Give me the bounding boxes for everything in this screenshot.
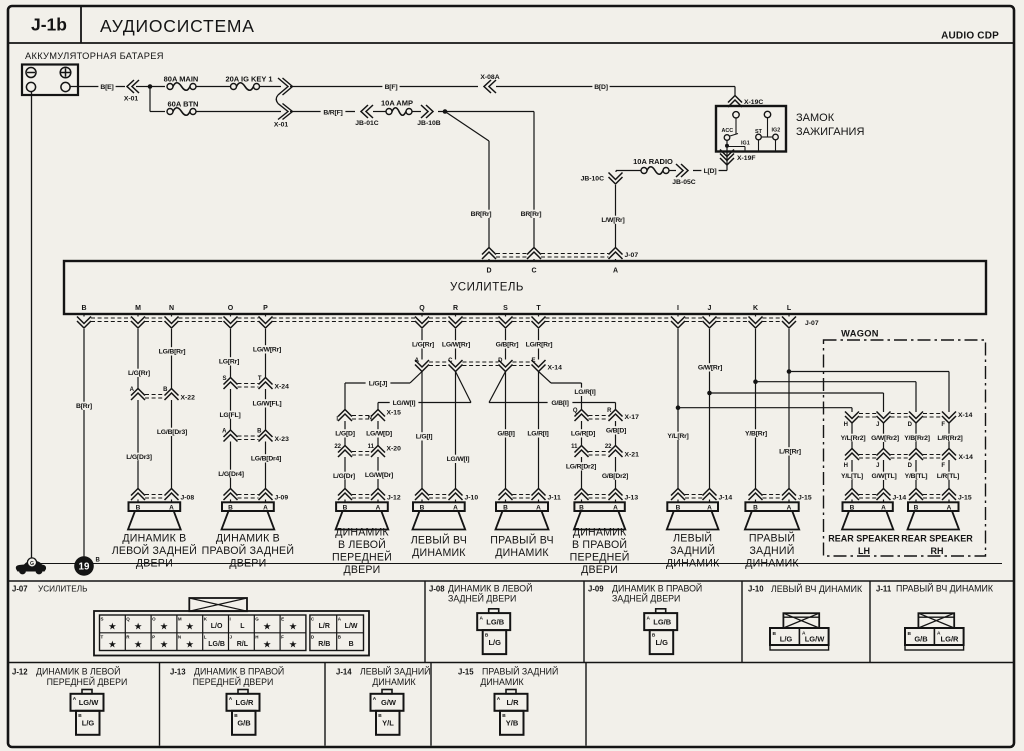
wire L[D]	[726, 166, 728, 171]
svg-text:ЛЕВОЙ ЗАДНЕЙ: ЛЕВОЙ ЗАДНЕЙ	[112, 544, 197, 557]
wire O LG[Rr]	[230, 329, 232, 378]
svg-text:Y/L[Rr2]: Y/L[Rr2]	[841, 435, 866, 442]
wire G/B[D]	[615, 421, 617, 446]
svg-text:A: A	[373, 696, 377, 702]
svg-text:J-12: J-12	[387, 495, 401, 502]
svg-text:L/G[Rr]: L/G[Rr]	[412, 342, 434, 349]
ignition IG2 contact	[773, 134, 779, 140]
svg-text:M: M	[178, 617, 182, 622]
wagon dash-dot box	[824, 340, 986, 556]
svg-text:60A BTN: 60A BTN	[168, 100, 199, 109]
title row separator line	[8, 42, 1014, 44]
connector J-13 row	[575, 489, 589, 496]
svg-text:T: T	[101, 634, 104, 639]
svg-text:★: ★	[186, 640, 195, 651]
svg-text:N: N	[169, 305, 174, 312]
svg-text:LG/W[D]: LG/W[D]	[366, 431, 392, 438]
wire to JB-10B	[412, 111, 421, 113]
svg-text:E: E	[281, 617, 284, 622]
connector X-14 wagon row 2	[845, 449, 859, 456]
wire Q L/G[I]	[421, 372, 423, 489]
svg-text:R: R	[607, 408, 612, 414]
svg-text:J-14: J-14	[893, 495, 907, 502]
svg-text:G/W[TL]: G/W[TL]	[871, 473, 896, 480]
wire B[D]	[496, 86, 735, 88]
svg-text:D: D	[908, 463, 913, 469]
wire J G/W[Rr]	[709, 329, 711, 489]
wire L/G[D]	[344, 421, 346, 446]
wires wagon Rr2	[851, 423, 853, 449]
node J branch	[707, 391, 712, 396]
svg-text:LG/W[Dr]: LG/W[Dr]	[365, 472, 393, 479]
svg-text:УСИЛИТЕЛЬ: УСИЛИТЕЛЬ	[38, 585, 87, 594]
svg-text:ДИНАМИК В ПРАВОЙ: ДИНАМИК В ПРАВОЙ	[194, 666, 284, 677]
svg-text:J: J	[876, 463, 879, 469]
ground car icon	[16, 561, 46, 572]
svg-text:J-1b: J-1b	[31, 15, 67, 35]
svg-text:X-17: X-17	[625, 414, 640, 421]
svg-text:I: I	[230, 617, 231, 622]
connector X-14 main	[415, 365, 429, 372]
svg-text:J-09: J-09	[275, 495, 289, 502]
svg-text:X-15: X-15	[387, 410, 402, 417]
svg-text:X-21: X-21	[625, 452, 640, 459]
svg-text:IG2: IG2	[772, 128, 781, 134]
connector J-08 pinout	[489, 609, 499, 613]
fuse 10A RADIO	[641, 168, 647, 174]
svg-text:LG/W: LG/W	[79, 698, 99, 707]
node amp feed split	[438, 111, 534, 113]
connector X-01 harness crossing	[278, 78, 293, 95]
svg-text:ДИНАМИК В: ДИНАМИК В	[122, 533, 186, 545]
ground bus line	[30, 563, 1002, 565]
battery BAT	[22, 65, 78, 96]
svg-text:A: A	[613, 268, 618, 275]
svg-text:G/B[I]: G/B[I]	[551, 400, 568, 407]
svg-text:ПРАВЫЙ: ПРАВЫЙ	[749, 532, 795, 545]
svg-text:ЗАЖИГАНИЯ: ЗАЖИГАНИЯ	[796, 126, 864, 138]
svg-text:D: D	[486, 268, 491, 275]
svg-text:10A AMP: 10A AMP	[381, 99, 413, 108]
svg-text:IG1: IG1	[741, 141, 750, 147]
speaker rear RH	[908, 502, 959, 511]
svg-text:R/B: R/B	[318, 641, 330, 648]
svg-text:J-10: J-10	[465, 495, 479, 502]
svg-text:P: P	[263, 305, 268, 312]
svg-text:ДИНАМИК: ДИНАМИК	[335, 527, 389, 539]
svg-text:ДИНАМИК: ДИНАМИК	[480, 677, 524, 687]
svg-text:G/W[Rr2]: G/W[Rr2]	[871, 435, 899, 442]
svg-text:B: B	[579, 504, 584, 511]
wire K to wagon	[756, 381, 917, 383]
svg-text:Y/B[TL]: Y/B[TL]	[905, 473, 928, 480]
svg-text:ДИНАМИК В ПРАВОЙ: ДИНАМИК В ПРАВОЙ	[612, 583, 702, 594]
svg-text:Y/L: Y/L	[382, 719, 394, 728]
table row divider	[8, 662, 1014, 664]
svg-text:LG/R[I]: LG/R[I]	[527, 431, 548, 438]
svg-text:В ПРАВОЙ: В ПРАВОЙ	[572, 538, 627, 551]
svg-text:B[F]: B[F]	[385, 84, 398, 91]
svg-text:H: H	[844, 463, 848, 469]
svg-text:J-13: J-13	[625, 495, 639, 502]
svg-text:J-14: J-14	[719, 495, 733, 502]
svg-text:10A RADIO: 10A RADIO	[633, 157, 673, 166]
svg-text:★: ★	[134, 622, 143, 633]
svg-text:ЗАДНЕЙ ДВЕРИ: ЗАДНЕЙ ДВЕРИ	[612, 593, 680, 604]
svg-text:T: T	[258, 376, 262, 382]
speaker J-12 left front door	[336, 502, 388, 511]
wire P LG/B[Dr4]	[265, 442, 267, 489]
svg-text:B: B	[908, 631, 912, 637]
connector J-12 row	[338, 489, 352, 496]
ignition switch box	[716, 106, 786, 152]
svg-text:★: ★	[263, 640, 272, 651]
speaker rear LH	[843, 502, 893, 511]
ground ref circle 19	[74, 556, 94, 576]
svg-text:X-01: X-01	[274, 122, 289, 129]
svg-text:E: E	[531, 358, 535, 364]
wire B[Rr]	[83, 329, 85, 557]
connector JB-10B	[426, 105, 433, 118]
svg-text:★: ★	[108, 622, 117, 633]
wire R LG/W[I] down	[455, 372, 457, 489]
speaker J-10 left tweeter	[413, 502, 465, 511]
svg-text:C: C	[448, 358, 453, 364]
wire to fuse 10A RADIO	[669, 170, 676, 172]
svg-text:Y/B[Rr2]: Y/B[Rr2]	[904, 435, 930, 442]
svg-text:H: H	[255, 634, 258, 639]
svg-text:ЛЕВЫЙ ВЧ: ЛЕВЫЙ ВЧ	[411, 534, 467, 547]
svg-text:L/R[TL]: L/R[TL]	[937, 473, 959, 480]
svg-text:LG/W[Rr]: LG/W[Rr]	[253, 347, 281, 354]
svg-text:G: G	[255, 617, 259, 622]
svg-text:J-07: J-07	[12, 585, 28, 594]
ignition contact top-left	[733, 112, 739, 118]
svg-text:J-15: J-15	[458, 668, 474, 677]
connector J-07 pinout grid	[94, 611, 369, 656]
svg-text:A: A	[536, 504, 541, 511]
wire B[F]	[290, 86, 478, 88]
svg-text:ДИНАМИК В ЛЕВОЙ: ДИНАМИК В ЛЕВОЙ	[36, 666, 120, 677]
wire M L/G[Dr3]	[137, 400, 139, 489]
connector J-14 row	[671, 489, 685, 496]
wire drop to ignition switch	[734, 87, 736, 96]
wire K Y/B[Rr]	[755, 329, 757, 489]
svg-text:ПРАВЫЙ ВЧ: ПРАВЫЙ ВЧ	[490, 534, 554, 547]
wire S G/B[Rr]	[505, 329, 507, 360]
svg-text:★: ★	[289, 622, 298, 633]
wire LG/W[Dr]	[377, 457, 379, 489]
svg-text:LG/B[Dr3]: LG/B[Dr3]	[157, 429, 187, 436]
svg-text:B: B	[850, 504, 855, 511]
wire stub C	[533, 259, 535, 261]
svg-text:★: ★	[160, 640, 169, 651]
wire L/W[Rr] to amp pin A	[615, 185, 617, 247]
svg-text:L/R[Rr2]: L/R[Rr2]	[937, 435, 962, 442]
node K branch	[753, 379, 758, 384]
svg-text:H: H	[844, 422, 848, 428]
wire stub A	[615, 259, 617, 261]
svg-text:A: A	[497, 696, 501, 702]
svg-text:ДИНАМИК: ДИНАМИК	[412, 547, 466, 559]
wire P LG/W[FL]	[265, 389, 267, 431]
table r2 divider x586	[585, 663, 587, 746]
svg-text:D: D	[908, 422, 913, 428]
svg-text:ПЕРЕДНЕЙ: ПЕРЕДНЕЙ	[332, 551, 392, 564]
svg-text:11: 11	[368, 444, 375, 450]
wire fuse link	[196, 86, 231, 88]
connector X-22	[131, 389, 145, 396]
svg-text:J-12: J-12	[12, 668, 28, 677]
connector J-07 amp top row	[482, 248, 496, 255]
svg-text:A: A	[73, 696, 77, 702]
svg-text:J-07: J-07	[805, 320, 819, 327]
connector X-24	[224, 378, 238, 385]
svg-text:LG/W[I]: LG/W[I]	[393, 400, 416, 407]
svg-text:ЗАДНИЙ: ЗАДНИЙ	[749, 544, 794, 557]
svg-text:A: A	[480, 615, 484, 621]
svg-text:L/G: L/G	[488, 638, 501, 647]
svg-text:J: J	[708, 305, 712, 312]
node ACC output	[725, 144, 729, 148]
svg-text:JB-01C: JB-01C	[355, 120, 379, 127]
svg-text:Q: Q	[419, 305, 425, 312]
svg-text:В ЛЕВОЙ: В ЛЕВОЙ	[338, 538, 386, 551]
svg-text:BR[Rr]: BR[Rr]	[521, 211, 542, 218]
svg-text:ACC: ACC	[722, 128, 734, 134]
speaker J-09 right rear door	[222, 502, 274, 511]
svg-text:L/R: L/R	[506, 698, 519, 707]
svg-text:LG/B: LG/B	[208, 641, 225, 648]
svg-text:A: A	[947, 504, 952, 511]
wire Q L/G[Rr]	[421, 329, 423, 360]
svg-text:ПРАВЫЙ ВЧ ДИНАМИК: ПРАВЫЙ ВЧ ДИНАМИК	[896, 583, 994, 594]
svg-text:A: A	[222, 429, 227, 435]
svg-text:LG/W[I]: LG/W[I]	[447, 456, 470, 463]
svg-text:ДИНАМИК: ДИНАМИК	[573, 527, 627, 539]
svg-text:ЛЕВЫЙ ЗАДНИЙ: ЛЕВЫЙ ЗАДНИЙ	[360, 666, 431, 677]
connector J-11 row	[499, 489, 513, 496]
svg-text:УСИЛИТЕЛЬ: УСИЛИТЕЛЬ	[450, 282, 524, 294]
svg-text:A: A	[453, 504, 458, 511]
svg-text:J-08: J-08	[181, 495, 195, 502]
svg-text:B: B	[914, 504, 919, 511]
connector J-09 pinout	[656, 609, 666, 613]
svg-text:J-11: J-11	[876, 585, 892, 594]
svg-text:22: 22	[334, 444, 341, 450]
ignition ACC contact	[724, 135, 730, 141]
svg-text:RH: RH	[931, 546, 944, 556]
svg-text:REAR SPEAKER: REAR SPEAKER	[901, 534, 973, 544]
svg-text:80A MAIN: 80A MAIN	[164, 75, 199, 84]
wire ST-IG2 bar	[761, 136, 772, 138]
wire branch LG/W[I]	[456, 372, 472, 403]
wire M L/G[Rr]	[137, 329, 139, 389]
connector X-15	[338, 410, 352, 417]
svg-text:LG/B[Rr]: LG/B[Rr]	[159, 349, 186, 356]
svg-text:B: B	[136, 504, 141, 511]
svg-text:ЗАДНЕЙ ДВЕРИ: ЗАДНЕЙ ДВЕРИ	[448, 593, 516, 604]
svg-text:Y/L[Rr]: Y/L[Rr]	[667, 433, 688, 440]
svg-text:L: L	[787, 305, 792, 312]
svg-text:Y/B[Rr]: Y/B[Rr]	[745, 431, 767, 438]
svg-text:АУДИОСИСТЕМА: АУДИОСИСТЕМА	[100, 16, 255, 36]
svg-text:AUDIO CDP: AUDIO CDP	[941, 31, 999, 42]
svg-text:LG/B: LG/B	[653, 617, 671, 626]
svg-text:B: B	[349, 641, 354, 648]
connector J-07 amp bottom row	[83, 314, 85, 317]
svg-text:L: L	[204, 634, 207, 639]
svg-text:ДИНАМИК В: ДИНАМИК В	[216, 533, 280, 545]
svg-text:B[Rr]: B[Rr]	[76, 403, 92, 410]
svg-text:B: B	[81, 305, 86, 312]
svg-text:S: S	[101, 617, 104, 622]
connector J-11 pinout	[918, 613, 954, 628]
svg-text:B: B	[420, 504, 425, 511]
speaker J-11 right tweeter	[496, 502, 548, 511]
svg-text:★: ★	[186, 622, 195, 633]
svg-text:★: ★	[289, 640, 298, 651]
svg-text:L/G[Rr]: L/G[Rr]	[128, 370, 150, 377]
connector X-08A	[484, 80, 491, 93]
svg-text:A: A	[169, 504, 174, 511]
svg-text:X-23: X-23	[275, 436, 290, 443]
wire diagonal to BR[Rr] D	[445, 112, 489, 142]
node I branch	[676, 405, 681, 410]
svg-text:O: O	[228, 305, 234, 312]
svg-text:B: B	[163, 387, 168, 393]
svg-text:F: F	[941, 463, 945, 469]
svg-text:K: K	[753, 305, 758, 312]
svg-text:L/O: L/O	[211, 623, 223, 630]
speaker J-13 right front door	[574, 502, 624, 511]
svg-text:L/G[J]: L/G[J]	[369, 381, 387, 388]
connector X-23	[224, 430, 238, 437]
svg-text:ПРАВЫЙ ЗАДНИЙ: ПРАВЫЙ ЗАДНИЙ	[482, 666, 558, 677]
svg-text:G: G	[30, 561, 34, 567]
connector J-09 row	[224, 489, 238, 496]
wire to X-01 crossing lower	[196, 111, 281, 113]
svg-text:B[D]: B[D]	[594, 84, 608, 91]
svg-text:АККУМУЛЯТОРНАЯ БАТАРЕЯ: АККУМУЛЯТОРНАЯ БАТАРЕЯ	[25, 51, 164, 61]
svg-text:A: A	[229, 696, 233, 702]
connector JB-01C	[361, 105, 368, 118]
wire O L/G[Dr4]	[230, 442, 232, 489]
wire to JB-10C corner	[616, 170, 641, 172]
svg-text:L/G: L/G	[82, 719, 95, 728]
svg-text:J-08: J-08	[429, 585, 445, 594]
connector X-19F	[726, 152, 728, 167]
svg-text:L/G[Dr]: L/G[Dr]	[333, 473, 355, 480]
svg-text:T: T	[536, 305, 541, 312]
connector JB-05C	[681, 164, 688, 177]
svg-text:X-01: X-01	[124, 96, 139, 103]
svg-text:X-08A: X-08A	[480, 74, 499, 81]
node L branch	[787, 369, 792, 374]
svg-text:J-09: J-09	[588, 585, 604, 594]
connector J-08 row	[131, 489, 145, 496]
table r2 divider x325	[324, 663, 326, 746]
svg-text:C: C	[531, 268, 536, 275]
svg-text:A: A	[707, 504, 712, 511]
wires wagon TL	[851, 460, 853, 489]
speaker J-15 right rear	[745, 502, 798, 511]
svg-text:LG/B[Dr4]: LG/B[Dr4]	[251, 456, 281, 463]
wire branch G/B[I]	[489, 372, 506, 403]
svg-text:F: F	[941, 422, 945, 428]
svg-text:11: 11	[571, 444, 578, 450]
svg-text:D: D	[498, 358, 503, 364]
svg-text:G/B[Dr2]: G/B[Dr2]	[602, 473, 628, 480]
connector J-12 pinout	[82, 690, 92, 694]
svg-text:J-15: J-15	[798, 495, 812, 502]
svg-text:F: F	[281, 634, 284, 639]
svg-text:LH: LH	[858, 546, 870, 556]
svg-text:A: A	[263, 504, 268, 511]
svg-text:B: B	[676, 504, 681, 511]
wire to fuse 10A AMP	[373, 111, 386, 113]
svg-text:A: A	[613, 504, 618, 511]
svg-text:L/G: L/G	[780, 635, 793, 644]
svg-text:B: B	[343, 504, 348, 511]
svg-text:B: B	[753, 504, 758, 511]
connector J-15 row	[749, 489, 763, 496]
svg-text:L[D]: L[D]	[704, 168, 717, 175]
svg-text:G/W: G/W	[381, 698, 397, 707]
ignition ST contact	[756, 134, 762, 140]
wire LG/W[D]	[377, 421, 379, 446]
wire LG/R[Dr2]	[581, 457, 583, 489]
svg-text:LG/W[FL]: LG/W[FL]	[253, 401, 282, 408]
svg-text:L/G[Dr3]: L/G[Dr3]	[126, 454, 152, 461]
connector X-21	[575, 446, 589, 453]
connector X-17	[575, 410, 589, 417]
svg-text:X-14: X-14	[959, 454, 974, 461]
wire T LG/R[I] down	[538, 372, 540, 489]
svg-text:L/R[Rr]: L/R[Rr]	[779, 449, 801, 456]
wire O LG[FL]	[230, 389, 232, 431]
connector X-19C	[728, 96, 742, 103]
svg-text:WAGON: WAGON	[841, 329, 879, 339]
svg-text:A: A	[415, 358, 420, 364]
svg-text:X-14: X-14	[958, 412, 973, 419]
svg-text:L/W: L/W	[345, 623, 358, 630]
svg-text:19: 19	[79, 562, 90, 573]
svg-text:B: B	[96, 558, 101, 564]
wire S G/B[I] down	[505, 372, 507, 489]
connector J-10 row	[415, 489, 429, 496]
svg-text:B: B	[503, 504, 508, 511]
svg-text:J-13: J-13	[170, 668, 186, 677]
wire I to wagon	[678, 407, 852, 409]
wire branch LG/R[I]	[539, 372, 552, 384]
table r1 divider x425	[424, 581, 426, 663]
svg-text:G/B: G/B	[237, 719, 251, 728]
svg-text:L/G[D]: L/G[D]	[335, 431, 355, 438]
svg-text:LG/B: LG/B	[486, 617, 504, 626]
fuse 60A BTN	[167, 109, 173, 115]
svg-text:22: 22	[605, 444, 612, 450]
svg-text:20A IG KEY 1: 20A IG KEY 1	[225, 75, 272, 84]
title cell divider	[80, 6, 82, 43]
svg-text:I: I	[677, 305, 679, 312]
svg-text:L: L	[240, 623, 245, 630]
wire G/B[Dr2]	[615, 457, 617, 489]
amplifier box УСИЛИТЕЛЬ	[64, 261, 986, 314]
svg-text:Q: Q	[573, 408, 578, 414]
wire B/R[F]	[290, 111, 355, 113]
svg-text:L/G[Dr4]: L/G[Dr4]	[218, 471, 244, 478]
